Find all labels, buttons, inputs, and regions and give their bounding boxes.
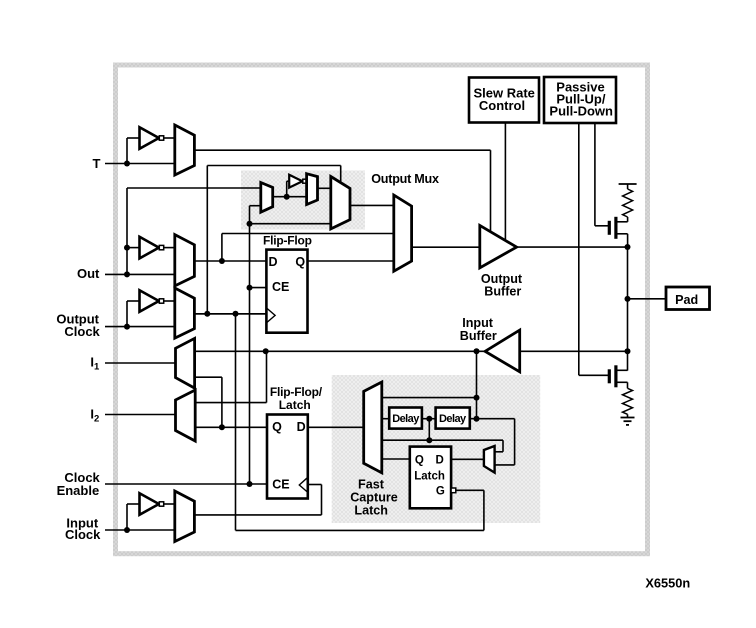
svg-text:T: T [92, 156, 100, 171]
svg-text:Input: Input [462, 316, 494, 330]
svg-text:Delay: Delay [439, 413, 467, 425]
svg-text:D: D [297, 420, 306, 434]
svg-text:Clock: Clock [64, 324, 100, 339]
svg-text:Buffer: Buffer [460, 329, 497, 343]
svg-text:Fast: Fast [358, 478, 385, 492]
svg-text:D: D [436, 454, 444, 466]
svg-text:Latch: Latch [414, 470, 445, 482]
svg-text:Q: Q [295, 255, 305, 269]
svg-text:G: G [436, 485, 445, 497]
svg-text:X6550n: X6550n [645, 576, 690, 591]
svg-text:Latch: Latch [354, 504, 388, 518]
svg-text:Clock: Clock [65, 527, 101, 542]
svg-text:Pull-Down: Pull-Down [549, 104, 613, 119]
svg-text:CE: CE [272, 280, 289, 294]
svg-text:Q: Q [272, 420, 282, 434]
svg-text:Latch: Latch [279, 398, 311, 412]
svg-text:Control: Control [479, 98, 525, 113]
svg-text:CE: CE [272, 477, 289, 491]
svg-text:Out: Out [77, 266, 100, 281]
svg-text:Flip-Flop: Flip-Flop [263, 233, 312, 247]
svg-text:Enable: Enable [57, 483, 100, 498]
svg-text:Delay: Delay [392, 413, 420, 425]
svg-text:Capture: Capture [350, 491, 398, 505]
svg-text:Output Mux: Output Mux [371, 172, 439, 186]
svg-text:D: D [268, 255, 277, 269]
svg-text:Pad: Pad [675, 293, 698, 307]
svg-text:Buffer: Buffer [484, 285, 521, 299]
svg-text:Flip-Flop/: Flip-Flop/ [270, 385, 323, 399]
svg-text:Q: Q [415, 454, 424, 466]
